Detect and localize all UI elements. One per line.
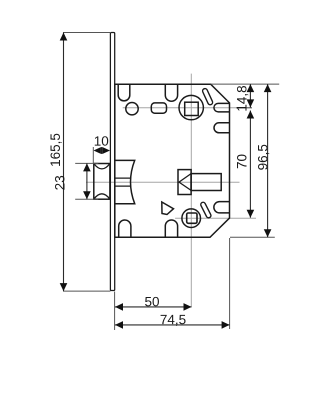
dimension line 70: [249, 111, 251, 218]
latch bevel arc top: [94, 164, 110, 169]
arrow 14,8 top: [247, 84, 255, 92]
latch bevel arc bottom: [94, 194, 110, 199]
handle square spindle hole: [185, 102, 199, 115]
arrow 70 bottom: [247, 210, 255, 218]
centerline horizontal through latch: [86, 181, 240, 183]
dimension line 50: [115, 306, 192, 308]
cylinder hole circle: [182, 209, 201, 228]
extension line body right bottom: [229, 238, 231, 329]
deadbolt body rectangle: [191, 174, 221, 191]
bottom slot 1: [119, 220, 131, 237]
svg-text:96,5: 96,5: [255, 144, 270, 170]
dimension line 96,5: [267, 84, 269, 237]
arrow 50 left: [115, 303, 123, 311]
dimension tick 10 center: [101, 147, 103, 154]
svg-text:10: 10: [94, 134, 109, 149]
bottom diagonal slot: [203, 205, 209, 216]
extension line latch top: [75, 162, 98, 164]
arrow 165,5 bottom: [60, 283, 68, 291]
dimension line 74,5: [115, 324, 230, 326]
arrow 74,5 right: [222, 321, 230, 329]
svg-text:74,5: 74,5: [160, 312, 186, 327]
svg-text:165,5: 165,5: [48, 133, 63, 167]
arrow 70 top: [247, 111, 255, 119]
top slot 1: [118, 84, 130, 101]
faceplate: [110, 33, 114, 291]
arrow 165,5 top: [60, 33, 68, 41]
arrow 96,5 bottom: [264, 229, 272, 237]
arrow 10 left: [94, 147, 101, 154]
extension line body top right: [211, 83, 280, 85]
arrow 14,8 bottom: [247, 99, 255, 107]
arrow 96,5 top: [264, 84, 272, 92]
lock body case outline: [115, 84, 230, 237]
deadbolt wedge lines: [179, 174, 191, 191]
extension line backset left: [114, 292, 116, 331]
extension line faceplate top: [63, 32, 111, 34]
arrow 23 bottom: [83, 191, 91, 199]
deadbolt head rectangle: [178, 170, 191, 195]
svg-text:14,8: 14,8: [234, 85, 249, 111]
cylinder square hole: [187, 213, 197, 223]
arrow 74,5 left: [115, 321, 123, 329]
arrow 50 right: [184, 303, 192, 311]
oval slot: [151, 103, 166, 113]
extension line body bottom right: [230, 236, 275, 238]
latch follower housing: [115, 160, 135, 203]
svg-text:23: 23: [53, 175, 68, 190]
right edge notch 2: [214, 123, 230, 133]
centerline horizontal through handle hub: [123, 107, 252, 109]
bottom slot 2: [165, 220, 177, 237]
bottom right notch: [214, 202, 230, 213]
svg-text:50: 50: [144, 294, 159, 309]
extension line faceplate bottom: [63, 290, 111, 292]
extension line latch bottom: [75, 198, 98, 200]
screw hole circle: [126, 103, 138, 115]
dimension line 165,5: [63, 33, 65, 292]
extension line latch width left: [92, 147, 94, 163]
top slot 2: [165, 84, 177, 101]
right edge notch 1: [214, 103, 230, 112]
dimension line 23: [86, 163, 88, 199]
handle hub circle: [179, 95, 203, 119]
arrow 10 right: [103, 147, 110, 154]
dimension line 14,8: [249, 84, 251, 107]
svg-text:70: 70: [234, 154, 249, 169]
top diagonal slot: [205, 91, 210, 102]
extension line handle center right: [236, 107, 252, 109]
arrow 23 top: [83, 163, 91, 171]
pennant cutout: [162, 202, 174, 215]
latch bolt head: [94, 164, 110, 200]
latch tail band: [115, 178, 131, 186]
centerline horizontal through cylinder hole: [175, 217, 256, 219]
centerline vertical through spindle and cylinder: [190, 74, 192, 307]
